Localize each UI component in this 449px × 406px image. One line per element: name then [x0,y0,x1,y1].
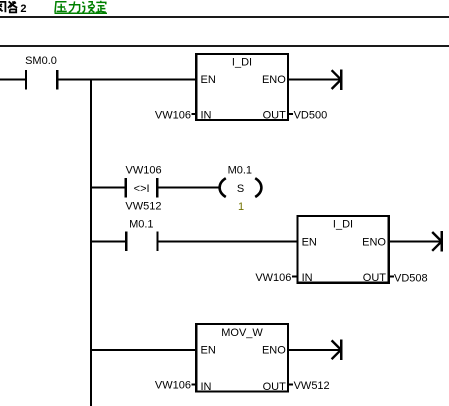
svg-text:ENO: ENO [262,74,286,86]
wire: branch bus to compare contact (rung 2) [91,187,125,189]
svg-text:VW106: VW106 [155,110,191,122]
svg-text:1: 1 [238,201,244,213]
continuation arrow (rung 3) [432,231,443,251]
wire: VW106 tick to U2 IN [292,276,297,278]
svg-text:IN: IN [201,109,212,121]
svg-text:S: S [237,183,244,195]
wire: U2 ENO to continuation arrow [389,240,441,242]
svg-text:EN: EN [201,74,216,86]
wire: U3 ENO to continuation arrow [288,349,340,351]
wire: U2 OUT tick to VD508 [389,276,394,278]
wire: left power rail stub to contact SM0.0 [0,78,25,80]
svg-text:OUT: OUT [263,381,287,393]
box U3 MOV_W outline [196,324,288,392]
contact SM0.0 (normally open) [25,70,59,90]
coil M0.1 (S) set coil [220,178,262,197]
svg-text:<>I: <>I [134,183,150,195]
svg-text:VW512: VW512 [294,380,330,392]
wire: compare contact to coil M0.1 [158,187,218,189]
wire: VW106 tick to U3 IN [191,384,196,386]
box U2 I_DI outline [297,216,388,283]
svg-text:I_DI: I_DI [333,218,353,230]
svg-text:VW106: VW106 [255,272,291,284]
contact M0.1 (normally open) [125,232,159,251]
wire: contact SM0.0 to box U1 EN (through junction) [58,78,196,80]
wire: VW106 tick to U1 IN [191,113,196,115]
wire: branch bus to contact M0.1 (rung 3) [91,240,125,242]
continuation arrow (rung 4) [332,340,343,360]
svg-text:EN: EN [302,237,317,249]
svg-text:I_DI: I_DI [232,56,252,68]
wire: U3 OUT tick to VW512 [288,384,293,386]
network header label "网络 2" [0,1,27,15]
svg-text:ENO: ENO [362,237,386,249]
svg-text:SM0.0: SM0.0 [25,55,57,67]
svg-text:M0.1: M0.1 [228,164,252,176]
box U1 I_DI outline [196,54,288,120]
svg-text:2: 2 [20,3,26,15]
header separator line (bottom) [0,45,449,47]
svg-text:ENO: ENO [262,344,286,356]
svg-text:OUT: OUT [263,109,287,121]
wire: contact M0.1 to box U2 EN [159,240,298,242]
svg-text:VD500: VD500 [294,110,328,122]
svg-text:M0.1: M0.1 [129,219,153,231]
svg-text:IN: IN [201,381,212,393]
svg-text:VW512: VW512 [125,201,161,213]
contact compare VW106 <>I VW512 [125,178,159,197]
svg-text:VW106: VW106 [126,165,162,177]
junction: vertical branch bus down from rung 1 [90,78,92,406]
continuation arrow (rung 1) [332,69,343,89]
wire: U1 ENO to continuation arrow [288,78,340,80]
wire: branch bus to box U3 EN (rung 4) [91,349,197,351]
svg-text:VW106: VW106 [155,379,191,391]
svg-text:OUT: OUT [363,272,387,284]
network title "压力设定" (green, underlined) [55,1,108,14]
header separator line (top) [0,16,449,18]
svg-text:IN: IN [302,272,313,284]
svg-text:MOV_W: MOV_W [221,327,263,339]
wire: U1 OUT tick to VD500 [288,113,293,115]
svg-text:VD508: VD508 [394,273,428,285]
svg-text:EN: EN [201,344,216,356]
